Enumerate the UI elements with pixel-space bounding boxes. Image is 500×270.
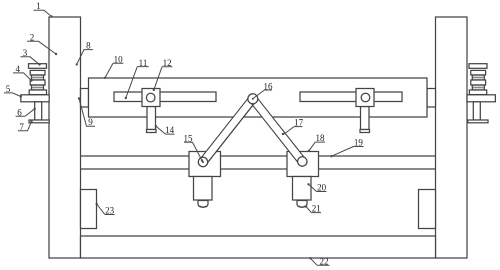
svg-text:9: 9 [88,117,93,127]
plate (5) [21,95,49,102]
block 15 pin center dot [202,161,204,163]
leader 3 [21,57,40,65]
leader 10 [105,63,123,78]
right spring row2 [472,75,484,80]
left slot (11) [114,92,216,102]
stem (6) [35,102,42,120]
svg-text:20: 20 [317,183,327,193]
nozzle nub (21) right [297,201,307,208]
leader 5 [4,93,21,97]
svg-text:8: 8 [86,41,91,51]
link left inner edge redraw [206,101,256,164]
leader 16 [253,90,272,98]
svg-text:15: 15 [184,133,194,143]
svg-text:2: 2 [30,32,35,42]
svg-text:18: 18 [316,133,326,143]
right column [436,17,468,258]
svg-text:5: 5 [6,84,11,94]
svg-text:19: 19 [354,138,364,148]
right stub [427,89,436,108]
right cap block [469,64,487,69]
slide block (15) [189,152,221,177]
right spring row4 [472,85,484,90]
spring row4 midline [32,87,43,89]
cylinder (20) right [293,177,312,201]
leader 2 [27,41,56,54]
pin circle of block 18 [298,157,307,166]
svg-text:12: 12 [163,58,172,68]
leader 8 [77,50,93,65]
spring (4) row1 [30,70,45,75]
svg-text:3: 3 [23,48,28,58]
leader 22 [311,258,330,265]
right spring assembly [467,64,495,123]
right spring row5 [469,90,486,95]
svg-text:22: 22 [320,256,329,266]
slider stem foot (14) [147,130,157,133]
right plate [467,95,495,102]
label texts [6,1,364,266]
right spring row4 midline [473,87,484,89]
leader 14 [156,126,175,134]
left stub (9) [81,89,89,108]
right slider pin circle [361,93,370,102]
apex pin (16) [198,94,307,167]
leader 17 [284,127,303,135]
bottom beam (22) [81,236,436,258]
leader 21 [306,207,321,213]
leader 18 [309,142,325,151]
left spring assembly [21,64,49,123]
apex pin center dot [252,98,254,100]
right pocket [419,190,436,229]
rail (19) bottom line [81,168,436,170]
svg-text:10: 10 [114,54,124,64]
right stem [473,102,480,120]
cylinder (20) left [194,177,213,201]
leader 15 [184,142,202,160]
left column (2) [49,17,81,258]
svg-text:17: 17 [294,118,304,128]
svg-text:1: 1 [36,1,41,11]
svg-text:7: 7 [19,122,24,132]
slider stem (14) [147,107,156,130]
right slider block [356,89,374,107]
leaders [4,10,364,265]
svg-text:4: 4 [15,64,20,74]
right spring row1 [471,70,486,75]
leader 6 [16,109,35,117]
spring row2 midline [32,77,43,79]
leader 4 [13,73,32,81]
leader 9 [79,99,95,127]
slide block (18) [287,152,319,177]
leader 11 [126,67,149,98]
leader 20 [309,184,327,191]
cap block (3) [29,64,47,69]
right spring row3 [471,80,486,85]
top beam (10) [89,78,428,117]
right spring row2 midline [473,77,484,79]
svg-text:14: 14 [165,125,175,135]
spring (4) row4 [32,85,44,90]
nozzle nub (21) left [198,201,208,208]
leader 7 [18,122,32,131]
leader 12 [154,67,173,90]
right slider stem foot [360,130,370,133]
pin circle of block 15 [198,157,207,166]
leader 1 [34,10,52,16]
spring (4) row2 [32,75,44,80]
svg-text:16: 16 [264,81,274,91]
right slider stem [361,107,370,130]
spring (4) row3 [30,80,45,85]
slider block (12) [142,89,160,107]
right foot [468,120,488,123]
left pocket (23) [81,190,97,229]
spring (4) row5 [29,90,46,95]
leader 23 [97,204,115,215]
svg-text:6: 6 [17,107,22,117]
rail (19) top line [81,155,436,157]
right slot [300,92,402,102]
svg-text:11: 11 [139,58,148,68]
leader 19 [332,147,364,157]
link left (17) [203,99,253,162]
svg-text:21: 21 [312,204,321,214]
svg-text:23: 23 [105,206,115,216]
link right (17) [253,99,302,162]
leader arrow dots [20,15,333,259]
foot (7) [29,120,49,123]
slider pin circle (12) [146,93,155,102]
